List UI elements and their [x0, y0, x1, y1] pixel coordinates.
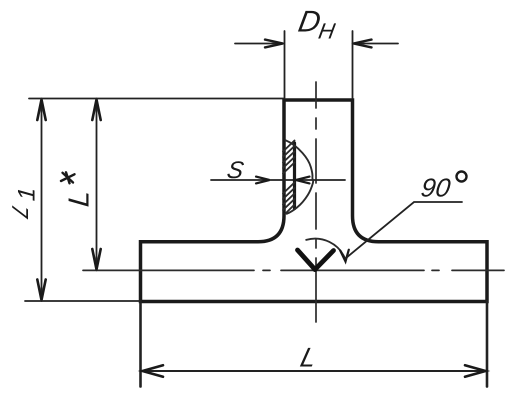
- svg-text:L: L: [64, 189, 96, 208]
- angle arc 90deg: [306, 239, 345, 259]
- left extension line below pipe (L dimension): [139, 301, 142, 387]
- tee body outline: [141, 100, 488, 302]
- horizontal centerline of main pipe (chain line): [83, 269, 504, 271]
- top extension line (from branch top to left): [29, 98, 284, 100]
- asterisk of L*: [61, 172, 75, 183]
- svg-text:Н: Н: [317, 19, 338, 44]
- extension line D_H right: [352, 31, 354, 98]
- vertical centerline of branch (chain line): [315, 82, 317, 322]
- arrowhead L* bottom: [92, 249, 100, 269]
- arrowhead S right (pointing left at inner wall): [296, 177, 310, 184]
- leader line to 90deg label: [346, 202, 462, 258]
- break line of local section (wavy): [286, 140, 314, 214]
- V mark (90 degree junction symbol): [298, 250, 334, 270]
- arrowhead S left (pointing right at outer wall): [256, 177, 270, 184]
- bottom-left extension line (pipe bottom extended left): [25, 300, 141, 302]
- dimension line D_H (left tail): [235, 43, 284, 45]
- arrowhead D_H right: [354, 40, 372, 48]
- arrowhead of angle arc: [340, 250, 349, 262]
- arrowhead D_H left: [265, 40, 283, 48]
- arrowhead L1 bottom: [37, 280, 45, 301]
- arrowhead L1 top: [37, 100, 45, 121]
- svg-text:1: 1: [13, 186, 40, 202]
- dimension line L1: [41, 99, 43, 302]
- dimension line S: [211, 179, 345, 181]
- extension line D_H left: [284, 31, 286, 98]
- arrowhead L left: [143, 365, 164, 377]
- dimension line L*: [96, 99, 98, 271]
- hatching upper patch: [283, 141, 295, 174]
- hatching lower patch: [283, 183, 295, 214]
- arrowhead L right: [465, 365, 486, 377]
- dimension line D_H (right tail): [353, 43, 399, 45]
- arrowhead L* top: [92, 100, 100, 121]
- dimension line L: [141, 370, 487, 372]
- right extension line below pipe (L dimension): [486, 301, 489, 387]
- svg-text:L: L: [298, 342, 321, 373]
- degree circle: [457, 172, 467, 182]
- inner wall line of local section: [293, 143, 296, 209]
- svg-text:90: 90: [419, 173, 453, 203]
